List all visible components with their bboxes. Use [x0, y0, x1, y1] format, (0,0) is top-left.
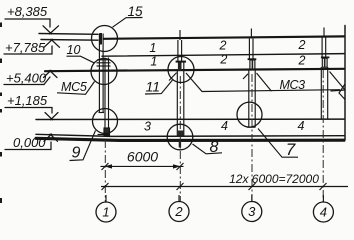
svg-text:0,000: 0,000: [13, 135, 46, 150]
svg-text:15: 15: [128, 4, 144, 19]
svg-text:8: 8: [210, 139, 219, 156]
svg-text:7: 7: [286, 140, 296, 159]
svg-text:3: 3: [144, 120, 151, 134]
svg-text:4: 4: [221, 119, 228, 133]
svg-text:9: 9: [72, 145, 81, 162]
svg-text:+7,785: +7,785: [5, 40, 46, 55]
svg-text:+8,385: +8,385: [7, 4, 48, 19]
svg-text:МС3: МС3: [280, 78, 306, 92]
svg-text:3: 3: [248, 204, 256, 219]
svg-text:2: 2: [219, 53, 227, 67]
svg-text:1: 1: [102, 205, 109, 220]
svg-text:2: 2: [219, 39, 227, 53]
svg-text:11: 11: [146, 79, 161, 95]
svg-text:МС5: МС5: [61, 80, 87, 94]
svg-text:2: 2: [298, 54, 306, 68]
svg-text:10: 10: [67, 43, 81, 57]
svg-text:12х 6000=72000: 12х 6000=72000: [229, 172, 319, 186]
svg-text:+1,185: +1,185: [7, 93, 48, 108]
svg-text:4: 4: [298, 119, 305, 133]
svg-text:+5,400: +5,400: [6, 71, 47, 86]
svg-text:2: 2: [298, 38, 306, 52]
svg-text:6000: 6000: [127, 149, 158, 165]
svg-text:1: 1: [150, 55, 157, 69]
svg-text:1: 1: [149, 41, 156, 55]
svg-text:4: 4: [320, 205, 327, 220]
svg-text:2: 2: [174, 204, 183, 219]
